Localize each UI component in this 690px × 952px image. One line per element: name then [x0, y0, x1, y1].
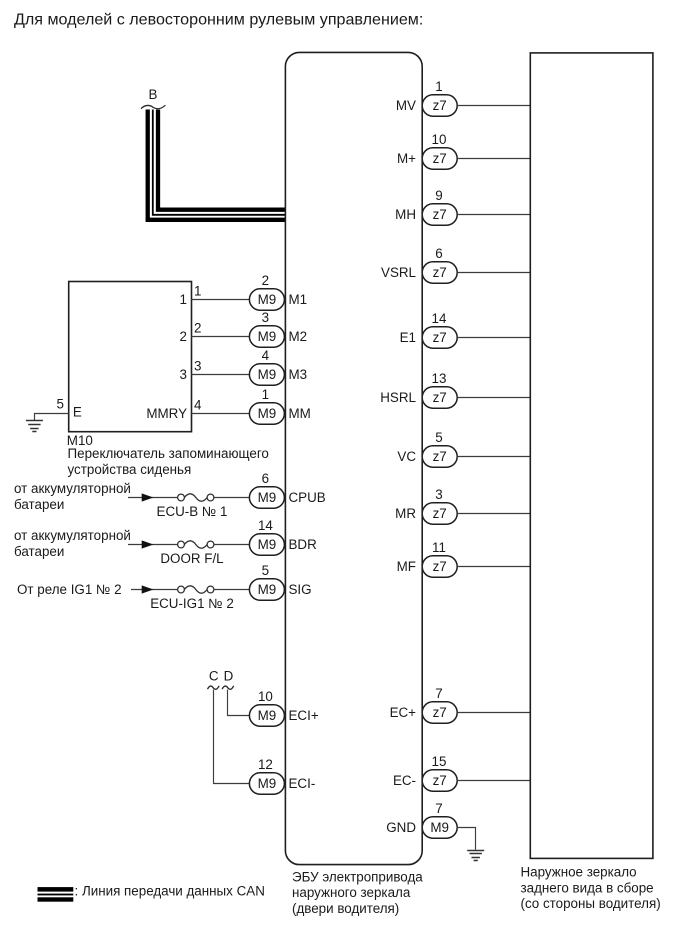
svg-text:M9: M9 [258, 708, 277, 723]
CAN bus wire from B to ECU [148, 110, 286, 220]
wire M10 pin 2 to connector (M2) [192, 336, 250, 338]
svg-text:VSRL: VSRL [381, 265, 416, 280]
svg-text:2: 2 [194, 321, 201, 336]
wire from source to fuse (CPUB) [128, 497, 178, 499]
svg-text:M9: M9 [258, 537, 277, 552]
svg-text:: Линия передачи данных CAN: : Линия передачи данных CAN [75, 884, 265, 899]
svg-text:(со стороны водителя): (со стороны водителя) [521, 896, 661, 911]
svg-text:заднего вида в сборе: заднего вида в сборе [521, 880, 654, 895]
svg-text:6: 6 [262, 471, 269, 486]
connector z7 pin 7 (EC+) [422, 702, 457, 723]
svg-text:10: 10 [258, 689, 273, 704]
ground symbol at M10 [26, 421, 43, 432]
svg-text:от аккумуляторной: от аккумуляторной [14, 528, 131, 543]
wire M+ to mirror assembly [457, 158, 530, 160]
arrow on wire (SIG) [142, 585, 154, 593]
wire from C to ECI- [214, 690, 250, 784]
svg-text:1: 1 [262, 387, 269, 402]
wire M10 pin 3 to connector (M3) [192, 374, 250, 376]
wire from fuse to connector (CPUB) [214, 497, 250, 499]
svg-text:3: 3 [435, 487, 442, 502]
svg-text:ECU-B № 1: ECU-B № 1 [157, 504, 228, 519]
svg-text:14: 14 [432, 311, 447, 326]
svg-text:M+: M+ [397, 151, 416, 166]
wire from source to fuse (BDR) [128, 544, 178, 546]
svg-text:z7: z7 [433, 98, 447, 113]
connector z7 pin 11 (MF) [422, 556, 457, 577]
svg-text:E1: E1 [400, 330, 416, 345]
svg-text:M9: M9 [258, 292, 277, 307]
svg-text:3: 3 [262, 310, 269, 325]
svg-text:z7: z7 [433, 773, 447, 788]
svg-text:D: D [224, 669, 234, 684]
svg-text:M9: M9 [258, 490, 277, 505]
wire E1 to mirror assembly [457, 337, 530, 339]
svg-text:M9: M9 [258, 367, 277, 382]
connector M9 pin 5 [249, 579, 284, 600]
svg-text:z7: z7 [433, 265, 447, 280]
svg-text:От реле IG1 № 2: От реле IG1 № 2 [17, 582, 122, 597]
svg-text:5: 5 [57, 396, 64, 411]
wire EC+ to mirror assembly [457, 712, 530, 714]
wire M10 pin MMRY to connector (MM) [192, 413, 250, 415]
svg-text:MF: MF [397, 559, 416, 574]
ground wire from GND [457, 828, 475, 850]
wire from source to fuse (SIG) [131, 589, 178, 591]
connector M9 pin 10 [249, 705, 284, 726]
wire from D to ECI+ [228, 690, 250, 716]
wire MV to mirror assembly [457, 105, 530, 107]
svg-text:VC: VC [397, 449, 416, 464]
svg-text:Наружное зеркало: Наружное зеркало [521, 865, 637, 880]
svg-text:C: C [209, 669, 219, 684]
svg-text:1: 1 [194, 284, 201, 299]
svg-text:устройства сиденья: устройства сиденья [68, 462, 192, 477]
ground wire from M10 pin 5 [35, 414, 69, 421]
wire MF to mirror assembly [457, 566, 530, 568]
ground symbol at GND [467, 851, 484, 861]
wire break at node C [208, 686, 220, 690]
svg-text:12: 12 [258, 757, 273, 772]
wire from fuse to connector (BDR) [214, 544, 250, 546]
svg-text:Переключатель запоминающего: Переключатель запоминающего [68, 446, 269, 461]
svg-text:от аккумуляторной: от аккумуляторной [14, 481, 131, 496]
svg-text:2: 2 [262, 273, 269, 288]
wire MH to mirror assembly [457, 214, 530, 216]
connector z7 pin 10 (M+) [422, 148, 457, 169]
arrow on wire (BDR) [142, 540, 154, 548]
svg-text:M1: M1 [289, 292, 308, 307]
wire from fuse to connector (SIG) [214, 589, 250, 591]
svg-text:z7: z7 [433, 705, 447, 720]
svg-text:M9: M9 [258, 776, 277, 791]
svg-text:M9: M9 [258, 582, 277, 597]
svg-text:M9: M9 [258, 329, 277, 344]
wire VSRL to mirror assembly [457, 272, 530, 274]
svg-text:3: 3 [194, 359, 201, 374]
connector M9 pin 14 [249, 534, 284, 555]
svg-text:14: 14 [258, 518, 273, 533]
svg-text:M2: M2 [289, 329, 308, 344]
wire MR to mirror assembly [457, 513, 530, 515]
svg-text:z7: z7 [433, 559, 447, 574]
connector z7 pin 13 (HSRL) [422, 387, 457, 408]
svg-text:CPUB: CPUB [289, 490, 326, 505]
svg-text:MR: MR [395, 506, 416, 521]
connector z7 pin 6 (VSRL) [422, 262, 457, 283]
svg-text:13: 13 [432, 371, 447, 386]
svg-text:(двери водителя): (двери водителя) [292, 901, 399, 916]
wire break at node B [141, 105, 165, 109]
svg-text:z7: z7 [433, 151, 447, 166]
connector M9 pin 3 [249, 326, 284, 347]
svg-text:M9: M9 [430, 820, 449, 835]
connector M9 pin 7 (GND) [422, 817, 457, 838]
seat memory switch M10 box [69, 282, 192, 432]
svg-text:1: 1 [435, 79, 442, 94]
svg-text:z7: z7 [433, 449, 447, 464]
CAN legend symbol [38, 887, 74, 902]
wire break at node D [222, 686, 234, 690]
svg-text:MM: MM [289, 406, 311, 421]
fuse ECU-IG1 № 2 [178, 586, 214, 593]
svg-text:2: 2 [180, 329, 187, 344]
svg-text:7: 7 [435, 686, 442, 701]
svg-text:z7: z7 [433, 390, 447, 405]
connector z7 pin 15 (EC-) [422, 770, 457, 791]
connector M9 pin 2 [249, 289, 284, 310]
svg-text:3: 3 [180, 367, 187, 382]
mirror ECU box (rounded) [285, 52, 422, 864]
svg-text:Для моделей с левосторонним ру: Для моделей с левосторонним рулевым упра… [14, 11, 423, 29]
svg-text:EC-: EC- [393, 773, 416, 788]
wire VC to mirror assembly [457, 456, 530, 458]
svg-text:MH: MH [395, 207, 416, 222]
connector M9 pin 1 [249, 403, 284, 424]
svg-text:GND: GND [386, 820, 416, 835]
svg-text:B: B [149, 87, 158, 102]
svg-text:ЭБУ электропривода: ЭБУ электропривода [292, 870, 423, 885]
fuse DOOR F/L [178, 541, 214, 548]
connector z7 pin 3 (MR) [422, 503, 457, 524]
wire M10 pin 1 to connector (M1) [192, 299, 250, 301]
svg-text:11: 11 [432, 540, 446, 555]
svg-text:MMRY: MMRY [146, 406, 187, 421]
svg-text:15: 15 [432, 754, 447, 769]
svg-text:z7: z7 [433, 207, 447, 222]
svg-text:DOOR F/L: DOOR F/L [160, 551, 223, 566]
svg-text:батареи: батареи [14, 544, 64, 559]
svg-text:5: 5 [262, 563, 269, 578]
wire EC- to mirror assembly [457, 780, 530, 782]
connector M9 pin 6 [249, 487, 284, 508]
wire HSRL to mirror assembly [457, 397, 530, 399]
svg-text:4: 4 [194, 398, 202, 413]
svg-text:ECU-IG1 № 2: ECU-IG1 № 2 [150, 596, 234, 611]
connector M9 pin 12 [249, 773, 284, 794]
svg-text:z7: z7 [433, 506, 447, 521]
svg-text:6: 6 [435, 246, 442, 261]
connector z7 pin 5 (VC) [422, 446, 457, 467]
svg-text:M3: M3 [289, 367, 308, 382]
svg-text:BDR: BDR [289, 537, 318, 552]
svg-text:E: E [73, 405, 82, 420]
svg-text:5: 5 [435, 430, 442, 445]
svg-text:EC+: EC+ [390, 705, 417, 720]
connector z7 pin 1 (MV) [422, 95, 457, 116]
svg-text:HSRL: HSRL [380, 390, 416, 405]
svg-text:M9: M9 [258, 406, 277, 421]
svg-text:ECI-: ECI- [289, 776, 316, 791]
outer rear view mirror box [530, 53, 653, 859]
svg-text:1: 1 [180, 292, 187, 307]
connector z7 pin 14 (E1) [422, 327, 457, 348]
arrow on wire (CPUB) [142, 493, 154, 501]
svg-text:SIG: SIG [289, 582, 312, 597]
connector M9 pin 4 [249, 364, 284, 385]
svg-text:z7: z7 [433, 330, 447, 345]
svg-text:7: 7 [435, 801, 442, 816]
svg-text:ECI+: ECI+ [289, 708, 319, 723]
svg-text:4: 4 [262, 348, 270, 363]
svg-text:батареи: батареи [14, 497, 64, 512]
svg-text:MV: MV [396, 98, 416, 113]
connector z7 pin 9 (MH) [422, 204, 457, 225]
svg-text:наружного зеркала: наружного зеркала [292, 885, 411, 900]
fuse ECU-B № 1 [178, 494, 214, 501]
svg-text:10: 10 [432, 132, 447, 147]
svg-text:9: 9 [435, 188, 442, 203]
